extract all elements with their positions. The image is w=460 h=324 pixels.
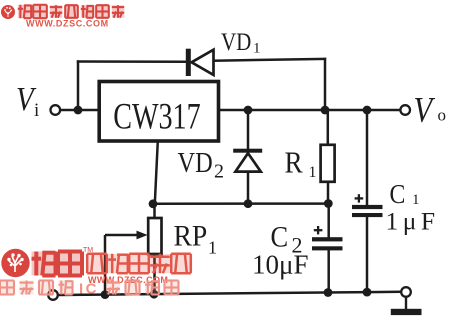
- svg-text:VD: VD: [221, 27, 251, 55]
- node: ADJ rail VD2 junction: [244, 199, 253, 208]
- watermark 全球最大IC采购网站: [0, 281, 179, 298]
- wire: R1 upper lead: [327, 110, 330, 146]
- svg-text:IC: IC: [79, 281, 99, 298]
- node: ADJ rail left junction (RP1 top): [149, 199, 158, 208]
- capacitor C2 plates: [312, 237, 343, 250]
- svg-text:CW317: CW317: [113, 97, 200, 138]
- terminal: Vi input: [51, 105, 61, 115]
- capacitor C1 plates: [352, 205, 383, 217]
- watermark top-left logo and 维库电子市场网: [1, 5, 124, 19]
- wire: VD2 lower lead: [247, 172, 250, 204]
- wire: RP1 bottom lead: [153, 254, 156, 295]
- diode VD1 (triangle): [192, 50, 214, 75]
- wire: Vi lead to CW317 input: [60, 109, 99, 112]
- watermark 电子市场网: [87, 254, 191, 273]
- label VD1: [221, 27, 261, 56]
- resistor R1: [321, 145, 335, 182]
- node: bottom rail wiper junction: [101, 290, 110, 299]
- svg-text:i: i: [34, 100, 39, 121]
- watermark 维库: [32, 252, 83, 276]
- regulator U1 CW317 box: [99, 82, 218, 142]
- wire: feedback riser at input node: [77, 60, 80, 110]
- wire: R1 lower lead: [327, 182, 330, 204]
- svg-text:10μF: 10μF: [252, 250, 309, 280]
- wire: RP1 wiper horizontal: [105, 234, 139, 237]
- svg-text:1μF: 1μF: [386, 207, 440, 236]
- svg-text:2: 2: [214, 161, 224, 183]
- wire: bottom ground rail: [58, 292, 402, 295]
- wire: top feedback drop to output rail: [324, 58, 327, 110]
- svg-text:C: C: [390, 179, 406, 210]
- wire: C2 lower lead: [327, 250, 330, 293]
- wire: C1 upper lead: [366, 110, 369, 205]
- svg-text:1: 1: [309, 164, 317, 181]
- diode VD2 (cathode bar): [233, 149, 262, 153]
- svg-text:V: V: [414, 90, 436, 130]
- wire: C1 lower lead: [366, 217, 369, 293]
- label C1: [390, 179, 420, 210]
- node: VD2/output rail junction: [244, 106, 253, 115]
- terminal: ground terminal: [401, 287, 411, 297]
- label RP1: [174, 219, 218, 257]
- label R1: [285, 146, 317, 181]
- svg-text:RP: RP: [174, 219, 208, 252]
- svg-text:1: 1: [208, 238, 217, 258]
- wire: top feedback right segment: [213, 59, 327, 61]
- wire: RP1 wiper drop: [104, 235, 107, 295]
- node: input junction: [74, 106, 83, 115]
- node: bottom rail RP1 junction: [150, 290, 159, 299]
- wire: C2 upper lead: [327, 204, 330, 238]
- svg-text:VD: VD: [178, 146, 213, 178]
- svg-text:R: R: [285, 146, 304, 180]
- label Vi: [16, 80, 39, 121]
- ground symbol: [391, 297, 422, 316]
- terminal: bottom left common: [48, 290, 58, 300]
- svg-text:o: o: [438, 106, 447, 125]
- potentiometer RP1 wiper arrow: [137, 231, 148, 240]
- capacitor C1 polarity +: [355, 194, 364, 202]
- watermark logo disc: [1, 249, 29, 277]
- wire: ADJ rail: [152, 202, 329, 205]
- wire: RP1 top lead: [153, 204, 156, 219]
- node: ADJ rail R1/C2 junction: [324, 199, 333, 208]
- svg-text:1: 1: [253, 41, 261, 57]
- label VD2: [178, 146, 225, 182]
- wire: top feedback left segment: [77, 60, 187, 63]
- label CW317: [113, 97, 200, 138]
- diode VD2 (triangle): [235, 153, 260, 171]
- potentiometer RP1 body: [148, 218, 161, 254]
- wire: output rail CW317 to Vo: [220, 109, 400, 112]
- capacitor C2 polarity +: [314, 226, 323, 234]
- label Vo: [414, 90, 447, 130]
- wire: VD2 upper lead: [247, 110, 250, 150]
- node: VD1/R1 output rail junction: [321, 106, 330, 115]
- terminal: Vo output: [400, 105, 410, 115]
- node: bottom rail C2 junction: [324, 288, 333, 297]
- diode VD1 (cathode bar): [186, 49, 191, 76]
- node: bottom rail C1 junction: [363, 288, 372, 297]
- node: C1 output rail junction: [363, 106, 372, 115]
- wire: CW317 ADJ pin drop: [155, 141, 158, 204]
- label C2: [271, 221, 303, 257]
- svg-text:WWW.DZSC.COM: WWW.DZSC.COM: [26, 19, 109, 29]
